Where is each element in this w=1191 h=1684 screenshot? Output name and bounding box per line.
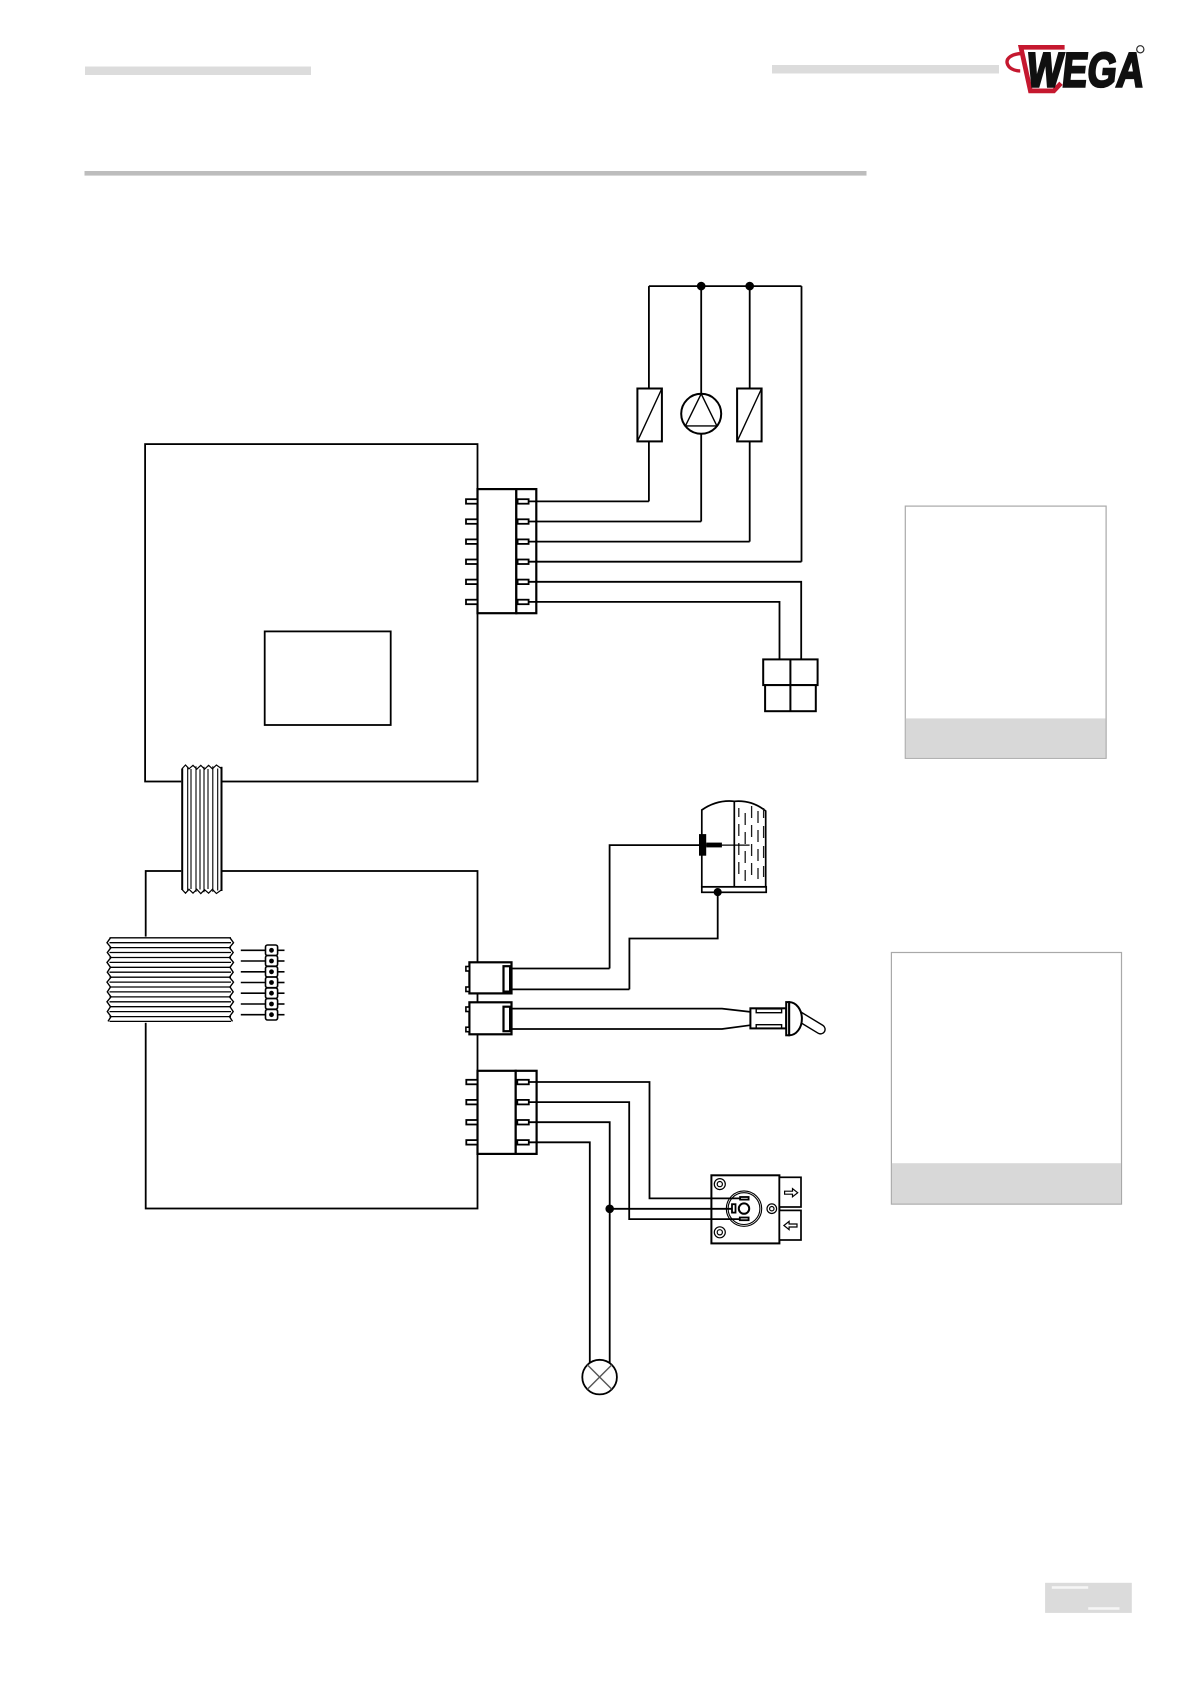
gas valve screw bottom-left — [714, 1227, 725, 1238]
flat ribbon cable left of A2 — [107, 937, 234, 1023]
junction node rail-pump — [698, 283, 705, 290]
pump motor M — [681, 394, 721, 434]
level probe — [699, 834, 722, 856]
wire CN2 pin1 — [512, 968, 610, 970]
safety thermostat body — [750, 1002, 802, 1035]
wire rail to valve EV1 — [648, 286, 650, 388]
temperature probe tube — [512, 1009, 751, 1029]
connector CN4 pins right — [517, 1080, 529, 1145]
wire CN1 pin1 to EV1 — [529, 500, 649, 502]
mains terminal block — [763, 659, 817, 711]
header divider rule — [85, 171, 867, 176]
display module box on A1 — [265, 631, 391, 725]
solenoid valve EV2 — [737, 389, 762, 442]
WEGA logo cup — [1007, 47, 1065, 91]
connector CN4 body — [478, 1071, 537, 1154]
connector CN3 body — [469, 1002, 511, 1034]
gas valve outlet top — [779, 1177, 801, 1207]
wire rail to valve EV2 — [749, 286, 751, 388]
header bar right — [772, 65, 999, 74]
boiler tank — [702, 801, 766, 892]
wire CN4 pin4 to lamp — [529, 1142, 590, 1363]
wire junction to gas valve — [610, 1208, 732, 1210]
indicator lamp — [582, 1360, 617, 1395]
junction node gas valve branch — [606, 1205, 613, 1212]
connector CN2 nubs — [466, 967, 470, 992]
gas valve screw right — [767, 1204, 777, 1214]
top supply rail wire — [649, 285, 802, 287]
wire pump to pin 2 — [700, 434, 702, 522]
legend box right upper — [905, 506, 1106, 758]
WEGA logo text — [1024, 44, 1147, 98]
control board box A1 — [145, 444, 477, 781]
pin header strip pads — [266, 945, 278, 1020]
wire CN1 pin4 to rail — [529, 561, 802, 563]
ribbon cable A1 to A2 — [181, 765, 222, 894]
wire CN1 pin2 to pump — [529, 521, 702, 523]
header bar left — [85, 67, 311, 76]
connector CN1 pins left — [466, 499, 478, 604]
footer code box — [1045, 1583, 1132, 1613]
wire CN1 pin3 to EV2 — [529, 541, 750, 543]
gas valve body — [711, 1175, 779, 1243]
connector CN4 pins left — [466, 1080, 477, 1145]
solenoid valve EV1 — [637, 389, 662, 442]
connector CN2 body — [469, 962, 511, 993]
wire CN1 pin5 to mains block — [529, 582, 802, 660]
thermostat lever — [801, 1012, 825, 1034]
wire EV1 to pin 1 — [648, 441, 650, 501]
connector CN1 pins right — [518, 499, 529, 604]
wire boiler body to CN2 — [629, 892, 717, 989]
power board box A2 — [146, 871, 478, 1209]
wire rail right drop — [801, 286, 803, 562]
legend box right lower — [891, 953, 1121, 1205]
wire CN2 pin2 — [512, 988, 630, 990]
svg-text:WEGA: WEGA — [1024, 44, 1147, 98]
junction node rail-EV2 — [746, 283, 753, 290]
wire level probe to CN2 — [610, 845, 699, 968]
wire rail to pump M — [700, 286, 702, 394]
WEGA logo trademark circle — [1137, 46, 1144, 53]
gas valve connector face — [726, 1191, 761, 1226]
pin header strip wires — [241, 950, 285, 1014]
boiler ground node — [715, 889, 721, 895]
wire CN1 pin6 to mains block — [529, 602, 780, 660]
connector CN1 body — [478, 489, 537, 613]
wire CN4 pin2 to gas valve — [529, 1102, 740, 1219]
gas valve screw top-left — [714, 1179, 725, 1190]
connector CN3 nubs — [466, 1007, 470, 1032]
wire CN4 pin3 to lamp — [529, 1122, 610, 1363]
gas valve inlet bottom — [779, 1210, 801, 1240]
wire EV2 to pin 3 — [749, 441, 751, 541]
wire CN4 pin1 to gas valve — [529, 1082, 740, 1198]
boiler water hatching — [739, 806, 764, 881]
